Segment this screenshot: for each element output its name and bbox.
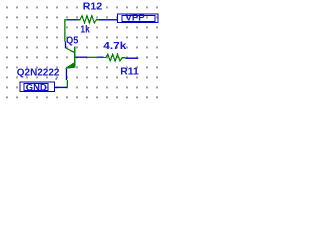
svg-text:VPP: VPP — [126, 12, 145, 22]
svg-text:1k: 1k — [80, 24, 90, 36]
svg-text:4.7k: 4.7k — [103, 40, 126, 52]
svg-text:Q5: Q5 — [66, 35, 78, 47]
svg-text:Q2N2222: Q2N2222 — [17, 67, 60, 79]
svg-text:GND: GND — [26, 83, 47, 93]
svg-text:R12: R12 — [83, 1, 103, 13]
svg-text:R11: R11 — [120, 66, 139, 78]
